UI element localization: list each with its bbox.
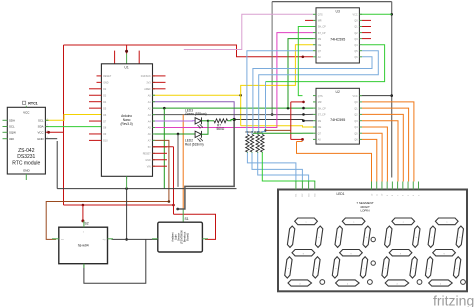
svg-text:c: c	[364, 268, 365, 270]
svg-text:SCL: SCL	[38, 119, 44, 123]
svg-text:74HC595: 74HC595	[330, 38, 345, 42]
svg-text:(Rev3.0): (Rev3.0)	[120, 122, 132, 126]
svg-text:OE: OE	[318, 126, 322, 129]
svg-text:VCC: VCC	[353, 14, 358, 17]
svg-text:RTC1: RTC1	[28, 102, 37, 106]
svg-text:VCC: VCC	[23, 111, 30, 115]
svg-text:Board): Board)	[186, 233, 190, 241]
svg-text:Green (555nm): Green (555nm)	[185, 112, 207, 116]
svg-text:c: c	[457, 268, 458, 270]
svg-text:SH_CP: SH_CP	[318, 26, 326, 29]
svg-text:SCL: SCL	[9, 125, 15, 129]
svg-text:AREF: AREF	[144, 88, 151, 91]
svg-text:d: d	[299, 283, 300, 285]
svg-text:560Ω: 560Ω	[217, 127, 225, 131]
svg-text:OE: OE	[318, 44, 322, 47]
svg-text:VCC: VCC	[37, 131, 43, 135]
svg-text:ST_CP: ST_CP	[318, 114, 326, 117]
svg-text:fritzing: fritzing	[433, 293, 474, 307]
svg-text:MR: MR	[318, 101, 322, 104]
svg-text:LED1: LED1	[337, 192, 345, 196]
svg-text:c: c	[413, 268, 414, 270]
svg-text:g: g	[443, 253, 444, 255]
svg-text:sw: sw	[61, 239, 64, 241]
svg-text:MR: MR	[318, 20, 322, 23]
svg-text:ST_CP: ST_CP	[318, 32, 326, 35]
svg-text:5V: 5V	[148, 146, 151, 149]
svg-text:LOPIN: LOPIN	[360, 208, 369, 212]
svg-text:g: g	[400, 253, 401, 255]
svg-text:GND: GND	[37, 137, 43, 141]
svg-text:74HC595: 74HC595	[330, 118, 345, 122]
svg-text:c: c	[316, 268, 317, 270]
svg-text:VCC: VCC	[353, 95, 358, 98]
svg-text:VIN: VIN	[147, 165, 151, 168]
svg-text:S2: S2	[85, 222, 89, 226]
svg-text:g: g	[350, 253, 351, 255]
svg-text:Q7S: Q7S	[318, 95, 323, 98]
svg-text:g: g	[303, 253, 304, 255]
svg-text:d: d	[396, 283, 397, 285]
svg-text:RESET: RESET	[103, 75, 112, 78]
svg-text:D13/SCK: D13/SCK	[141, 75, 151, 78]
svg-text:U3: U3	[336, 10, 340, 14]
svg-text:DS3231: DS3231	[17, 154, 35, 160]
svg-text:DS: DS	[318, 120, 322, 123]
svg-text:SDA: SDA	[9, 119, 15, 123]
svg-text:3V3: 3V3	[146, 82, 151, 85]
svg-text:RTC module: RTC module	[12, 161, 40, 167]
svg-text:D10: D10	[103, 140, 108, 143]
svg-text:DS: DS	[318, 38, 322, 41]
svg-text:d: d	[347, 283, 348, 285]
svg-text:Q7S: Q7S	[318, 14, 323, 17]
svg-text:SDA: SDA	[38, 125, 44, 129]
svg-text:GND: GND	[145, 159, 151, 162]
svg-text:SQW: SQW	[9, 131, 16, 135]
svg-text:U1: U1	[124, 66, 128, 70]
svg-text:SH_CP: SH_CP	[318, 107, 326, 110]
svg-text:d: d	[440, 283, 441, 285]
svg-text:RESET: RESET	[143, 153, 152, 156]
svg-text:S1: S1	[185, 217, 189, 221]
svg-text:Red (633nm): Red (633nm)	[185, 143, 204, 147]
svg-text:GND: GND	[23, 169, 31, 173]
svg-text:U2: U2	[336, 90, 340, 94]
svg-text:hs-w04: hs-w04	[78, 244, 89, 248]
svg-text:R1R2 R3R4: R1R2 R3R4	[246, 130, 263, 134]
svg-text:32K: 32K	[9, 137, 14, 141]
svg-text:GND: GND	[103, 82, 109, 85]
